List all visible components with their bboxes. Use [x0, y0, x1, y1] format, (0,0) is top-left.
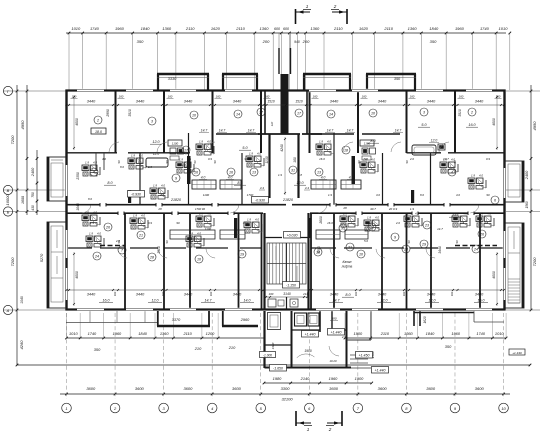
svg-text:200: 200 [262, 39, 270, 44]
svg-text:160: 160 [410, 95, 415, 99]
left grid circle G [3, 86, 12, 95]
room circle 4 [90, 168, 98, 176]
svg-text:4.0: 4.0 [93, 211, 97, 215]
room circle 26 [478, 230, 486, 238]
svg-text:14: 14 [329, 113, 333, 117]
svg-text:3440: 3440 [427, 293, 436, 297]
svg-text:3440: 3440 [87, 100, 96, 104]
room circle 17 [182, 146, 190, 154]
interior walls upper band [67, 91, 505, 205]
svg-text:1.9: 1.9 [85, 161, 89, 165]
room circle 10 [195, 255, 203, 263]
svg-text:24: 24 [473, 248, 478, 252]
stair flights [267, 243, 306, 284]
svg-text:1: 1 [306, 4, 309, 9]
svg-text:14.7: 14.7 [333, 299, 341, 303]
bathtub right bay [412, 139, 445, 156]
svg-text:В: В [7, 188, 10, 193]
svg-text:1900: 1900 [354, 331, 363, 336]
ventilation shafts [128, 156, 414, 238]
interior vertical dim chain right [496, 95, 498, 306]
room circle 14 [234, 110, 242, 118]
svg-text:2600: 2600 [319, 216, 323, 225]
svg-text:3140: 3140 [283, 292, 291, 296]
svg-text:14.7: 14.7 [219, 129, 226, 133]
fixture cluster at 360,162 [360, 158, 378, 174]
bottom balcony slabs left [66, 311, 258, 326]
right balcony upper [505, 161, 524, 202]
room circle 24 [93, 252, 101, 260]
svg-text:1.9: 1.9 [407, 212, 411, 216]
svg-text:23: 23 [424, 224, 429, 228]
room circle 14 [327, 110, 335, 118]
grid circle 9 [450, 403, 460, 413]
svg-text:8.0: 8.0 [120, 165, 124, 169]
grid circle 3 [159, 403, 169, 413]
svg-text:16.0: 16.0 [327, 221, 333, 225]
svg-text:1.9: 1.9 [199, 212, 203, 216]
svg-text:3440: 3440 [378, 293, 387, 297]
section mark 1 bottom [296, 411, 312, 431]
right dimension chains [506, 85, 540, 311]
svg-text:1.9: 1.9 [148, 165, 152, 169]
top interior dimension chain [66, 95, 506, 107]
svg-text:3: 3 [151, 120, 153, 124]
svg-text:16.0: 16.0 [103, 299, 110, 303]
svg-text:2110: 2110 [235, 26, 245, 31]
svg-text:4.0: 4.0 [487, 212, 491, 216]
svg-text:4950: 4950 [20, 120, 25, 130]
entrance block walls [265, 311, 352, 368]
fixture cluster at 82,165 [82, 161, 100, 177]
svg-text:2400: 2400 [525, 170, 529, 180]
svg-text:4600: 4600 [492, 118, 496, 126]
svg-text:90: 90 [244, 157, 248, 161]
svg-text:1740: 1740 [90, 26, 100, 31]
svg-text:29: 29 [421, 243, 426, 247]
svg-text:3.0: 3.0 [376, 193, 380, 197]
svg-text:90: 90 [455, 240, 459, 243]
svg-text:4.0: 4.0 [451, 158, 455, 162]
svg-text:1360: 1360 [160, 331, 169, 336]
fixture cluster at 246,158 [246, 152, 264, 168]
svg-text:90: 90 [213, 160, 217, 163]
svg-text:4600: 4600 [75, 271, 79, 279]
svg-text:+1.440: +1.440 [512, 351, 522, 355]
svg-text:1900: 1900 [355, 376, 364, 381]
svg-text:26: 26 [105, 226, 110, 230]
svg-text:160: 160 [209, 291, 213, 296]
svg-text:1360: 1360 [260, 26, 270, 31]
svg-text:7200: 7200 [532, 257, 537, 267]
svg-text:4950: 4950 [532, 121, 537, 131]
svg-text:4.0: 4.0 [207, 140, 211, 144]
fixture cluster at 366,222 [364, 216, 382, 232]
svg-text:16: 16 [229, 171, 233, 175]
bottom chain 160 labels [113, 291, 454, 296]
svg-text:3.0: 3.0 [484, 221, 488, 225]
svg-text:5270: 5270 [40, 253, 44, 262]
windows right wall [503, 168, 506, 300]
fixture cluster at 176,162 [176, 158, 194, 174]
svg-text:1.9: 1.9 [278, 173, 282, 177]
svg-text:+1.440: +1.440 [331, 330, 342, 334]
svg-text:4.4: 4.4 [260, 186, 265, 190]
grid circle 8 [402, 403, 412, 413]
bottom interior dimension chain [66, 289, 506, 303]
svg-text:13: 13 [317, 171, 321, 175]
lower kitchen counters [170, 230, 368, 239]
svg-text:1010: 1010 [69, 331, 78, 336]
svg-text:1700: 1700 [243, 221, 250, 225]
svg-text:200: 200 [302, 39, 310, 44]
room circle 9 [391, 233, 399, 241]
svg-text:12.0: 12.0 [429, 299, 436, 303]
dashed beam line left [100, 245, 125, 247]
svg-text:21820: 21820 [282, 198, 293, 202]
svg-text:1200: 1200 [206, 331, 215, 336]
fixture cluster at 340,216 [340, 212, 358, 228]
bathtub left bay [146, 152, 168, 167]
left grid circle A [3, 305, 12, 314]
svg-text:16.0: 16.0 [478, 299, 485, 303]
svg-text:12.0: 12.0 [153, 152, 159, 156]
svg-text:10: 10 [371, 112, 375, 116]
svg-text:6: 6 [494, 199, 496, 203]
svg-text:1700: 1700 [247, 193, 254, 197]
svg-text:2.8: 2.8 [297, 173, 302, 177]
left balcony lower [47, 222, 66, 308]
svg-text:3600: 3600 [426, 386, 436, 391]
svg-text:3440: 3440 [378, 100, 387, 104]
svg-text:160: 160 [459, 95, 464, 99]
section mark 2 bottom [326, 411, 342, 431]
svg-text:4.0: 4.0 [321, 176, 326, 180]
room circle 13 [250, 168, 258, 176]
fixture cluster at 82,215 [82, 211, 100, 227]
svg-text:3600: 3600 [329, 386, 339, 391]
svg-text:3: 3 [423, 111, 425, 115]
svg-text:4.0: 4.0 [327, 140, 331, 144]
svg-text:1.9: 1.9 [328, 193, 332, 197]
svg-text:160: 160 [293, 157, 297, 163]
svg-text:1980: 1980 [273, 376, 282, 381]
svg-text:600: 600 [283, 27, 289, 31]
fixture cluster at 478,216 [476, 212, 494, 228]
svg-text:4: 4 [451, 171, 453, 175]
svg-text:8.0: 8.0 [420, 193, 424, 197]
svg-text:5.0: 5.0 [364, 239, 368, 243]
room circle 2 [468, 108, 476, 116]
svg-text:780: 780 [31, 192, 35, 198]
fixture cluster at 468,178 [468, 174, 486, 190]
svg-text:2: 2 [470, 111, 473, 115]
room circle 10 [369, 109, 377, 117]
room circle 35 [339, 224, 347, 232]
grid circle 6 [305, 403, 315, 413]
fixture cluster at 246,222 [244, 218, 262, 234]
svg-text:1960: 1960 [455, 26, 465, 31]
svg-text:940: 940 [294, 40, 300, 44]
svg-text:1.9: 1.9 [199, 140, 203, 144]
svg-text:10: 10 [501, 406, 506, 411]
svg-text:4.0: 4.0 [371, 158, 375, 162]
svg-text:4.0: 4.0 [228, 176, 233, 180]
svg-text:1360: 1360 [408, 26, 418, 31]
corridor wall lower [67, 212, 505, 216]
svg-text:4.0: 4.0 [255, 218, 259, 222]
svg-text:350: 350 [394, 77, 401, 81]
svg-text:90: 90 [405, 160, 409, 163]
svg-text:9: 9 [394, 236, 396, 240]
room circle 26 [104, 223, 112, 231]
fixture cluster at 316,144 [316, 140, 334, 156]
svg-text:28: 28 [342, 206, 347, 210]
svg-text:1.9: 1.9 [90, 221, 94, 225]
svg-text:3440: 3440 [136, 293, 145, 297]
svg-text:210: 210 [194, 346, 202, 351]
svg-text:9: 9 [175, 177, 177, 181]
room circle 18 [342, 146, 350, 154]
svg-text:3370: 3370 [172, 318, 181, 322]
svg-text:1700 90: 1700 90 [195, 207, 206, 211]
svg-text:4.0: 4.0 [201, 176, 206, 180]
svg-text:7200: 7200 [10, 135, 15, 145]
svg-text:1840: 1840 [138, 331, 147, 336]
svg-text:4.0: 4.0 [207, 212, 211, 216]
svg-text:2.8: 2.8 [115, 239, 120, 243]
svg-text:3510: 3510 [128, 109, 132, 117]
svg-text:580: 580 [331, 317, 336, 321]
svg-text:350: 350 [137, 39, 144, 44]
svg-text:160: 160 [168, 95, 173, 99]
svg-text:1980: 1980 [271, 342, 275, 349]
svg-text:28: 28 [403, 248, 408, 252]
svg-text:2.0: 2.0 [341, 335, 347, 339]
svg-text:1.9: 1.9 [179, 158, 183, 162]
svg-text:14.7: 14.7 [347, 129, 354, 133]
room circle 10 [357, 250, 365, 258]
svg-text:90: 90 [486, 193, 490, 197]
room circle 23 [423, 221, 431, 229]
svg-text:1840: 1840 [429, 26, 439, 31]
svg-text:16: 16 [194, 171, 198, 175]
building top wall [66, 89, 506, 91]
svg-text:350: 350 [430, 39, 437, 44]
svg-text:160: 160 [161, 291, 165, 296]
svg-text:21: 21 [347, 246, 352, 250]
center expansion joint walls [279, 33, 291, 134]
svg-text:3440: 3440 [87, 293, 96, 297]
svg-text:+0.030: +0.030 [287, 233, 298, 237]
svg-text:14: 14 [236, 113, 240, 117]
svg-text:4600: 4600 [492, 271, 496, 279]
svg-text:1960: 1960 [113, 331, 122, 336]
svg-text:160: 160 [450, 291, 454, 296]
svg-text:3440: 3440 [136, 100, 145, 104]
svg-text:0.9: 0.9 [486, 157, 490, 161]
svg-text:90: 90 [176, 221, 180, 225]
svg-text:160: 160 [269, 292, 274, 296]
svg-text:2.0: 2.0 [395, 221, 400, 225]
svg-text:лифта: лифта [341, 265, 353, 269]
svg-text:13: 13 [252, 171, 256, 175]
svg-text:1130: 1130 [265, 156, 269, 163]
room circle 16 [192, 168, 200, 176]
svg-text:20 0.9: 20 0.9 [388, 207, 398, 211]
svg-text:90: 90 [165, 240, 169, 243]
svg-text:2140: 2140 [300, 376, 310, 381]
svg-text:16.0: 16.0 [468, 123, 476, 127]
dashed beam line right [455, 245, 497, 247]
svg-text:1840: 1840 [141, 26, 151, 31]
svg-text:350: 350 [94, 347, 101, 352]
svg-text:12.0: 12.0 [296, 181, 304, 185]
svg-text:28: 28 [157, 207, 162, 211]
left grid circle V [3, 185, 12, 194]
svg-text:Б: Б [7, 209, 10, 214]
room circle 7 [118, 246, 126, 254]
svg-text:3440: 3440 [438, 246, 442, 254]
top extension lines [69, 33, 510, 90]
grid circle 7 [353, 403, 363, 413]
svg-text:4.0: 4.0 [161, 184, 165, 188]
scattered small dimension texts [88, 157, 490, 243]
svg-text:2.8: 2.8 [159, 193, 164, 197]
section mark 1 top [296, 4, 312, 24]
svg-text:10: 10 [197, 258, 201, 262]
room circle 28 [402, 245, 410, 253]
svg-text:2: 2 [333, 4, 337, 9]
stairwell lower chain [265, 292, 309, 298]
svg-text:-0.930: -0.930 [255, 198, 265, 202]
svg-text:160: 160 [354, 291, 358, 296]
svg-text:28: 28 [149, 256, 154, 260]
svg-text:1100: 1100 [172, 142, 179, 146]
svg-text:26: 26 [479, 233, 484, 237]
svg-text:+1.440: +1.440 [375, 368, 386, 372]
svg-text:3330: 3330 [168, 77, 177, 81]
top balcony 2 [222, 74, 258, 90]
svg-text:4600: 4600 [75, 118, 79, 126]
svg-text:1100: 1100 [203, 193, 210, 197]
corridor wall upper [67, 203, 505, 207]
svg-text:1100: 1100 [364, 142, 371, 146]
svg-text:19.20: 19.20 [330, 359, 337, 363]
room circle 21 [137, 231, 145, 239]
stair bottom rooms [268, 297, 298, 310]
room circle 17 [257, 108, 265, 116]
fixture cluster at 150,190 [150, 184, 168, 200]
svg-text:90: 90 [117, 160, 121, 163]
svg-text:1360: 1360 [310, 26, 320, 31]
svg-text:3600: 3600 [183, 386, 193, 391]
section mark 2 top [331, 4, 347, 24]
svg-text:4.0: 4.0 [97, 232, 101, 236]
building right wall [503, 90, 505, 311]
svg-text:1510: 1510 [295, 100, 303, 104]
svg-text:3440: 3440 [184, 100, 193, 104]
boxed room label [91, 128, 106, 134]
svg-text:110: 110 [270, 121, 274, 126]
svg-text:160: 160 [216, 95, 221, 99]
room circle 18 [314, 248, 322, 256]
svg-text:4.4: 4.4 [305, 186, 310, 190]
svg-text:4240: 4240 [280, 144, 284, 152]
right balcony lower [505, 223, 524, 308]
top balcony 1 [157, 74, 209, 90]
bottom main grid dimension chain [60, 386, 510, 402]
svg-text:12.0: 12.0 [152, 140, 160, 144]
svg-text:90: 90 [193, 160, 197, 164]
top dimension chain [66, 26, 511, 44]
svg-text:1.9: 1.9 [460, 221, 464, 225]
windows bottom wall [77, 308, 492, 311]
svg-text:1600: 1600 [21, 196, 25, 204]
svg-text:4.0: 4.0 [351, 212, 355, 216]
svg-text:3510: 3510 [458, 109, 462, 117]
svg-text:3600: 3600 [232, 386, 242, 391]
svg-text:4.0: 4.0 [463, 212, 467, 216]
svg-text:1100: 1100 [205, 227, 212, 231]
svg-text:1560: 1560 [525, 201, 529, 208]
hall cabinet cluster right [360, 140, 376, 160]
svg-text:14.7: 14.7 [395, 129, 402, 133]
svg-text:16000: 16000 [5, 194, 10, 206]
svg-text:160: 160 [313, 95, 318, 99]
svg-text:1.9: 1.9 [343, 212, 347, 216]
bottom grid extension lines [67, 313, 504, 399]
grid circle 1 [62, 403, 72, 413]
fixture cluster at 196,144 [196, 140, 214, 156]
svg-text:19: 19 [240, 253, 244, 257]
room circle 28 [148, 253, 156, 261]
svg-text:1.9: 1.9 [410, 207, 415, 211]
svg-text:14.0: 14.0 [244, 299, 251, 303]
room circle 24 [472, 245, 480, 253]
svg-text:1.9: 1.9 [189, 232, 193, 236]
room circle 3 [420, 108, 428, 116]
room circle 12 [368, 223, 376, 231]
svg-text:+1.450: +1.450 [359, 353, 370, 357]
fixture cluster at 452,216 [452, 212, 470, 228]
svg-text:160: 160 [265, 95, 270, 99]
svg-text:3440: 3440 [475, 100, 484, 104]
svg-text:1040: 1040 [20, 296, 24, 304]
svg-text:2990: 2990 [106, 109, 110, 118]
svg-text:3440: 3440 [184, 293, 193, 297]
room circle 13b [315, 168, 323, 176]
svg-text:3440: 3440 [330, 100, 339, 104]
svg-text:10: 10 [192, 114, 196, 118]
svg-text:21: 21 [138, 234, 143, 238]
svg-text:2110: 2110 [185, 26, 195, 31]
svg-text:0.9: 0.9 [208, 157, 212, 161]
svg-text:90: 90 [407, 240, 411, 243]
svg-text:12.0: 12.0 [381, 299, 388, 303]
right porch box label [509, 349, 525, 355]
svg-text:1.9: 1.9 [479, 212, 483, 216]
svg-text:-1.000: -1.000 [263, 353, 272, 357]
svg-text:30.7: 30.7 [370, 207, 376, 211]
svg-text:1960: 1960 [451, 331, 460, 336]
svg-text:1510: 1510 [267, 100, 275, 104]
svg-text:1.9: 1.9 [367, 216, 371, 220]
rotated 90 labels [117, 160, 459, 243]
top balcony 3 [303, 74, 351, 90]
svg-text:31: 31 [291, 169, 295, 173]
bottom entrance dimension chain [263, 376, 373, 384]
